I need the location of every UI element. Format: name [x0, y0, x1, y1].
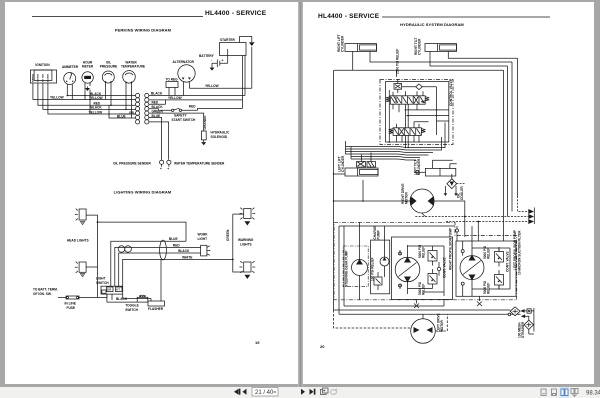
- wire right4 black to switch: [149, 109, 172, 111]
- svg-text:FUSE: FUSE: [67, 306, 76, 310]
- svg-text:-: -: [211, 59, 213, 63]
- svg-text:IN LINE: IN LINE: [65, 302, 76, 306]
- svg-text:BATTERY: BATTERY: [199, 54, 215, 58]
- wire right2 yellow long: [149, 100, 243, 104]
- flasher: [148, 301, 165, 306]
- page number box: [252, 388, 278, 397]
- work light label: [198, 233, 209, 241]
- right drive motor wires: [422, 213, 426, 217]
- starter: [220, 43, 247, 56]
- ground below solenoid: [201, 142, 206, 145]
- junction dots: [67, 95, 127, 115]
- to batt term label: [33, 288, 58, 297]
- svg-text:10 MICRON SUCTION FILTER: 10 MICRON SUCTION FILTER: [518, 230, 522, 275]
- right tilt cylinder: [425, 44, 457, 52]
- wire bus3 RED: [38, 83, 136, 105]
- svg-text:SOLENOID: SOLENOID: [211, 135, 228, 139]
- svg-text:STARTER: STARTER: [220, 38, 236, 42]
- loom ellipse main: [160, 240, 167, 260]
- 5000 psi relief valve bottom right: [428, 269, 437, 289]
- single page view icon: [541, 389, 546, 396]
- left drive motor wires: [334, 310, 448, 331]
- left pump internal wires: [472, 248, 510, 289]
- steering gear pump: [352, 223, 368, 301]
- fuse to switch wire: [79, 294, 107, 297]
- svg-text:BLACK: BLACK: [151, 92, 163, 96]
- svg-text:TO BATT. TERM.: TO BATT. TERM.: [33, 288, 58, 292]
- svg-text:ST: ST: [43, 79, 45, 82]
- head light top: [75, 209, 86, 225]
- svg-text:CYLINDER: CYLINDER: [418, 38, 422, 55]
- oil pressure label: [100, 61, 118, 69]
- 5000 psi relief valve top left-pump: [495, 247, 504, 267]
- flasher riser wire: [160, 259, 162, 301]
- middle wire bundle: [346, 123, 446, 161]
- svg-text:START SWITCH: START SWITCH: [172, 118, 197, 122]
- svg-text:TEMPERATURE: TEMPERATURE: [121, 65, 145, 69]
- wire red from switch: [182, 108, 243, 110]
- svg-text:+: +: [222, 59, 224, 63]
- svg-text:ALTERNATOR: ALTERNATOR: [173, 60, 195, 64]
- return filter diamond: [508, 307, 520, 316]
- svg-text:LIGHTING WIRING DIAGRAM: LIGHTING WIRING DIAGRAM: [114, 190, 172, 195]
- fwd button: [301, 389, 305, 395]
- svg-text:STEERING GEAR PUMP: STEERING GEAR PUMP: [345, 250, 349, 287]
- control valve cross wires: [389, 90, 449, 143]
- svg-text:STRAINER: STRAINER: [521, 321, 525, 338]
- svg-text:RED: RED: [189, 104, 196, 108]
- svg-text:20: 20: [320, 344, 325, 349]
- spool valve 1 stems: [393, 91, 423, 148]
- svg-text:WATER TEMPERATURE SENDER: WATER TEMPERATURE SENDER: [174, 162, 225, 166]
- svg-text:MOTOR: MOTOR: [440, 319, 444, 332]
- wire bundle from switch: [111, 241, 135, 286]
- svg-text:YELLOW: YELLOW: [168, 96, 182, 100]
- right nested verticals: [504, 58, 518, 241]
- continuous view icon: [552, 389, 557, 396]
- svg-text:LIGHTS: LIGHTS: [240, 242, 252, 246]
- drain X right pump: [414, 300, 419, 309]
- left lift cylinder: [345, 168, 378, 176]
- strainer diamond: [524, 317, 534, 335]
- in line fuse label: [65, 302, 76, 311]
- port circle group top: [456, 226, 459, 241]
- svg-text:RED: RED: [139, 295, 146, 299]
- wire bus5 YELLOW: [48, 83, 136, 114]
- loom ellipse pair: [118, 246, 131, 252]
- ammeter gauge: [64, 73, 76, 87]
- filter bypass box: [525, 308, 534, 332]
- spool valve 1: [386, 96, 429, 104]
- gauge port circle right pump: [437, 262, 440, 276]
- right propulsion pump box: [392, 237, 453, 300]
- safety start switch label: [172, 114, 197, 122]
- hydraulic solenoid: [201, 131, 206, 142]
- left drive motor: [411, 319, 436, 344]
- ground below battery: [210, 68, 215, 71]
- in line fuse: [58, 296, 79, 299]
- svg-text:GREEN: GREEN: [226, 229, 230, 241]
- right pump internal wires: [408, 246, 445, 296]
- svg-text:YELLOW: YELLOW: [205, 84, 219, 88]
- svg-text:BLACK: BLACK: [116, 297, 128, 301]
- svg-text:LIGHT: LIGHT: [198, 237, 208, 241]
- hour meter label: [82, 61, 94, 69]
- junction dot white-green: [232, 259, 234, 261]
- svg-text:B R: B R: [107, 289, 111, 292]
- right drive motor: [410, 189, 434, 213]
- two page view icon (active): [560, 387, 570, 398]
- oil cooler: [444, 174, 465, 196]
- left pump ports: [461, 226, 472, 296]
- toggle switch: [137, 295, 148, 302]
- svg-text:RELIEF: RELIEF: [422, 284, 426, 295]
- wire gr line: [118, 113, 136, 115]
- control valve inner box: [386, 82, 449, 142]
- svg-text:CYLINDER: CYLINDER: [341, 35, 345, 52]
- left tilt cylinder: [414, 168, 456, 176]
- head light bottom: [75, 262, 86, 277]
- svg-text:HEAD LIGHTS: HEAD LIGHTS: [67, 239, 89, 243]
- prev-page button: [234, 389, 240, 395]
- wire bus2 YELLOW: [33, 83, 136, 100]
- snapshot icon: [321, 388, 329, 395]
- right pump ports: [399, 245, 408, 294]
- right lift cylinder: [345, 44, 377, 52]
- relief valve in control valve: [394, 79, 402, 93]
- svg-text:+: +: [167, 167, 169, 171]
- svg-text:19: 19: [255, 340, 260, 345]
- safety start switch: [172, 108, 182, 111]
- svg-text:H T: H T: [116, 289, 120, 292]
- oil pressure gauge: [102, 71, 114, 87]
- header rule left page: [32, 16, 203, 18]
- svg-text:PUMP: PUMP: [376, 229, 380, 239]
- next-page button: [310, 389, 316, 395]
- warning lights label: [238, 238, 254, 247]
- steering pump dashdot box: [343, 246, 368, 287]
- flow arrow upper: [520, 309, 524, 313]
- cylinder connection wires middle: [334, 153, 457, 202]
- drain X left pump: [477, 296, 482, 306]
- svg-text:PERKINS WIRING DIAGRAM: PERKINS WIRING DIAGRAM: [115, 28, 172, 33]
- spool valve 2 stems: [397, 122, 429, 142]
- rotate icon (disabled): [331, 388, 337, 394]
- svg-text:FLASHER: FLASHER: [148, 307, 164, 311]
- wire blue: [129, 240, 186, 242]
- svg-text:ORANGE: ORANGE: [203, 116, 207, 130]
- wire white: [135, 258, 233, 260]
- starter down wires: [243, 56, 246, 109]
- wire bus1 BLACK: [67, 87, 136, 96]
- flow arrow lower: [521, 314, 525, 318]
- oil pressure sender: [160, 160, 164, 171]
- svg-text:CYLINDER: CYLINDER: [341, 155, 345, 172]
- top wire rails: [334, 52, 518, 78]
- svg-text:BLUE: BLUE: [169, 237, 178, 241]
- wire alternator yellow: [189, 47, 251, 88]
- head light wires: [86, 215, 186, 297]
- wire right5 green to solenoid: [149, 113, 204, 131]
- svg-text:COOLER: COOLER: [460, 186, 464, 200]
- wire right6 blue down: [149, 118, 169, 161]
- svg-text:WARNING: WARNING: [238, 238, 254, 242]
- svg-text:IGNITION: IGNITION: [35, 63, 50, 67]
- spool valve 2: [389, 128, 426, 136]
- junction dots middle: [333, 173, 364, 202]
- ground at starter: [240, 37, 255, 47]
- check valve diamond: [402, 84, 437, 135]
- starter stud wire: [227, 49, 229, 63]
- regulator connector TO REG: [166, 78, 179, 96]
- pump group dashdot box: [334, 222, 517, 299]
- ignition switch: [30, 70, 56, 83]
- left propulsion pump: [460, 255, 484, 281]
- back button: [243, 389, 247, 395]
- junction dot headlight: [97, 221, 99, 223]
- svg-text:MOTOR: MOTOR: [405, 191, 409, 204]
- battery: [211, 59, 228, 68]
- connector right column: [145, 93, 149, 124]
- water temperature label: [121, 61, 145, 69]
- svg-text:21 / 40: 21 / 40: [255, 390, 274, 396]
- svg-text:0000: 0000: [85, 76, 91, 80]
- control valve outer box: [380, 80, 453, 145]
- warning lights vertical wire: [233, 214, 244, 272]
- wire black: [129, 252, 200, 254]
- svg-text:CONT. VALVE: CONT. VALVE: [506, 251, 510, 272]
- svg-text:HL4400 - SERVICE: HL4400 - SERVICE: [318, 13, 380, 20]
- toggle switch label: [125, 304, 138, 312]
- svg-text:AMMETER: AMMETER: [62, 65, 79, 69]
- svg-text:HL4400 - SERVICE: HL4400 - SERVICE: [205, 10, 267, 17]
- svg-text:SWITCH: SWITCH: [125, 308, 138, 312]
- svg-text:OF IGN. SW.: OF IGN. SW.: [33, 292, 52, 296]
- svg-text:SWITCH: SWITCH: [96, 281, 109, 285]
- svg-text:RELIEF: RELIEF: [487, 283, 491, 294]
- wire bus4 BLACK: [43, 83, 136, 109]
- water temperature gauge: [123, 71, 136, 87]
- svg-text:RELIEF: RELIEF: [422, 247, 426, 258]
- svg-text:TO REG: TO REG: [166, 78, 179, 82]
- svg-text:PRESSURE: PRESSURE: [100, 65, 118, 69]
- svg-text:YELLOW: YELLOW: [50, 95, 64, 99]
- light switch: [101, 286, 123, 294]
- toggle switch wire: [107, 294, 137, 302]
- svg-text:BLACK: BLACK: [178, 249, 190, 253]
- svg-text:98.34: 98.34: [586, 390, 600, 396]
- light switch label: [96, 277, 109, 285]
- right propulsion pump: [395, 257, 420, 283]
- ground below hour meter: [85, 87, 90, 92]
- svg-text:CONT. VALVE: CONT. VALVE: [443, 257, 447, 278]
- wire red: [129, 246, 200, 248]
- svg-text:WHITE: WHITE: [182, 255, 192, 259]
- water temperature sender: [167, 160, 171, 171]
- hour meter gauge: [82, 72, 93, 86]
- tank chevron arrows: [415, 196, 534, 241]
- alternator: [178, 65, 195, 96]
- svg-text:OIL PRESSURE SENDER: OIL PRESSURE SENDER: [113, 162, 152, 166]
- left propulsion pump box: [456, 241, 516, 296]
- flasher wire: [123, 294, 151, 301]
- svg-text:LEFT PROPULSION PUMP: LEFT PROPULSION PUMP: [513, 229, 517, 270]
- work light: [201, 245, 211, 256]
- connector left column: [136, 93, 140, 124]
- svg-text:METER: METER: [82, 65, 94, 69]
- 5000 psi relief valve bottom left-pump: [495, 270, 504, 290]
- 100 psi relief valve: [374, 272, 382, 290]
- warning light top: [233, 208, 255, 226]
- bottom rails: [334, 70, 521, 314]
- wire bus6 BLUE: [109, 87, 136, 119]
- svg-text:RIGHT PROPULSION PUMP: RIGHT PROPULSION PUMP: [449, 227, 453, 270]
- svg-text:+: +: [160, 167, 162, 171]
- flow regulator boxes: [357, 162, 376, 168]
- hydraulic solenoid label: [211, 131, 230, 139]
- svg-text:RED: RED: [173, 243, 180, 247]
- warning light bottom: [240, 261, 256, 279]
- two page scroll icon: [571, 389, 578, 397]
- header rule right page: [382, 16, 550, 18]
- charge pump box: [371, 240, 390, 294]
- svg-text:IGN: IGN: [38, 78, 40, 82]
- svg-text:HYDRAULIC SYSTEM DIAGRAM: HYDRAULIC SYSTEM DIAGRAM: [400, 22, 464, 27]
- wire right1 to regulator: [149, 95, 245, 97]
- 5000 psi relief valve top right: [428, 246, 437, 266]
- svg-text:CONTROL VALVE: CONTROL VALVE: [449, 79, 453, 106]
- charge pump: [380, 226, 389, 277]
- svg-text:RELIEF: RELIEF: [487, 248, 491, 259]
